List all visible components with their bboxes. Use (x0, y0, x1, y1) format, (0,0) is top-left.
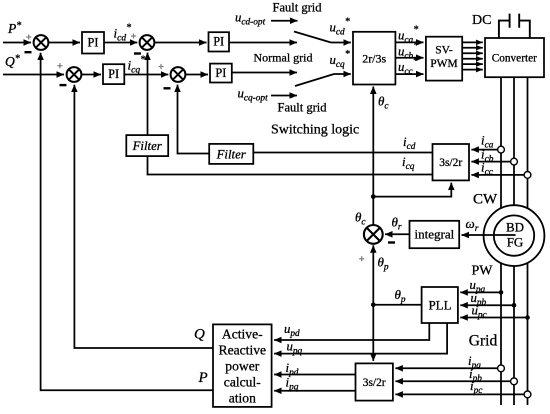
wire i_pb to 3s/2r PW (395, 380, 514, 382)
wire u_cq-opt fault contact row2 (271, 95, 297, 97)
block 3s/2r PW (356, 363, 393, 400)
svg-text:Reactive: Reactive (219, 343, 267, 358)
svg-text:upd: upd (284, 322, 300, 339)
svg-text:2r/3s: 2r/3s (362, 52, 386, 66)
svg-text:PI: PI (213, 35, 224, 49)
svg-text:power: power (225, 359, 259, 374)
svg-text:DC: DC (472, 13, 491, 28)
svg-text:Normal grid: Normal grid (254, 51, 313, 65)
wire i_pd 3s/2r to ARPC (274, 374, 355, 376)
wire PW phase a vertical (500, 257, 502, 405)
svg-text:Active-: Active- (222, 327, 263, 342)
node u_pc tap dot (525, 315, 530, 320)
wire S5 up to theta node (372, 197, 374, 225)
wire PI2 to normal-grid contact row1 (229, 42, 297, 44)
wire u_cc* to SV-PWM (395, 73, 423, 75)
summing junction S2 plus (131, 33, 136, 38)
wire S3 to PI3 (82, 74, 101, 76)
wire S2 to PI2 (155, 42, 207, 44)
switch blade SW1 (294, 32, 331, 43)
wire i_pa to 3s/2r PW (395, 367, 501, 369)
wire u_pq PLL to ARPC (274, 323, 447, 353)
wire PI4 to normal-grid contact row2 (232, 72, 297, 74)
summing junction S3 (67, 67, 82, 82)
wire P* input (3, 42, 31, 44)
node u_pa tap dot (499, 290, 504, 295)
PI controller PI1 (82, 32, 104, 54)
capacitor DC link (499, 14, 530, 38)
svg-text:3s/2r: 3s/2r (439, 157, 462, 169)
svg-text:PI: PI (215, 66, 226, 80)
svg-text:BD: BD (506, 220, 524, 235)
svg-text:Filter: Filter (132, 139, 163, 153)
wire PI1 to S2 with label i_cd* (104, 42, 137, 44)
wire u_ca* to SV-PWM (395, 41, 423, 43)
wire Filter1 to S2 minus (147, 53, 149, 136)
wire Q* input (3, 74, 64, 76)
wire i_cd from 3s/2r to Filter2 (253, 152, 432, 154)
svg-text:θp: θp (378, 255, 389, 273)
wire omega_r machine to integral (462, 234, 516, 236)
wire u_pb to PLL (460, 304, 514, 306)
wire theta_p down to 3s/2r PW (372, 305, 374, 361)
wire PW phase c vertical (527, 257, 529, 405)
filter block Filter2 (209, 144, 253, 164)
svg-text:PLL: PLL (428, 298, 451, 313)
svg-text:Converter: Converter (492, 53, 537, 65)
summing junction S1 plus (26, 34, 31, 39)
svg-text:P*: P* (7, 21, 21, 37)
svg-text:FG: FG (507, 235, 524, 250)
svg-text:PI: PI (88, 35, 99, 49)
svg-text:icd: icd (403, 135, 416, 152)
machine BDFG outer circle (484, 205, 545, 266)
svg-text:ation: ation (229, 391, 256, 406)
summing junction S2 minus (134, 52, 141, 54)
svg-text:integral: integral (415, 226, 455, 241)
wire u_cb* to SV-PWM (395, 57, 423, 59)
svg-text:PW: PW (472, 264, 494, 279)
summing junction S3 minus (60, 84, 67, 86)
block PLL (422, 287, 458, 323)
wire CW phase b vertical (513, 77, 515, 215)
block active-reactive power calculation (213, 324, 272, 407)
wire i_pq 3s/2r to ARPC (274, 390, 355, 392)
summing junction S5 plus (theta_p) (359, 256, 364, 261)
svg-text:3s/2r: 3s/2r (363, 377, 386, 389)
node theta_c junction dot (371, 194, 376, 199)
wire SW1 common to 2r/3s with label u_cd* (331, 42, 351, 44)
machine BDFG inner circle (494, 215, 534, 255)
svg-text:icq*: icq* (128, 55, 146, 76)
svg-text:θc: θc (378, 94, 389, 112)
block integral (410, 221, 460, 248)
svg-text:ωr: ωr (466, 216, 479, 234)
node i_pb sensor (511, 378, 518, 385)
wire theta_c to 3s/2r CW (373, 183, 451, 197)
wire Filter2 to S4 minus (178, 85, 210, 154)
wire i_cc to 3s/2r (471, 174, 527, 176)
block SV-PWM (426, 37, 462, 81)
wire u_cd-opt fault contact row1 (271, 20, 298, 22)
wire u_pa to PLL (460, 291, 501, 293)
wire i_cb to 3s/2r (471, 161, 514, 163)
summing junction S1 (34, 35, 49, 50)
summing junction S2 (140, 35, 155, 50)
wire theta_p up into S5 (372, 245, 374, 304)
svg-text:Q*: Q* (5, 54, 20, 70)
svg-text:Filter: Filter (216, 147, 247, 161)
svg-text:ucd-opt: ucd-opt (235, 11, 266, 28)
svg-text:ucd*: ucd* (330, 17, 350, 38)
wires SV-PWM to Converter (6 gate signals) (462, 42, 483, 69)
wire theta_c up to 2r/3s (372, 87, 374, 197)
svg-text:SV-: SV- (435, 45, 453, 57)
svg-text:θc: θc (355, 210, 366, 228)
summing junction S1 minus (25, 51, 32, 53)
svg-text:calcul-: calcul- (224, 375, 261, 390)
wire Q feedback to S3 (74, 85, 213, 348)
node i_ca sensor (498, 146, 505, 153)
summing junction S4 (171, 67, 186, 82)
summing junction S5 theta (364, 225, 383, 244)
svg-text:icq: icq (402, 155, 415, 172)
switch blade SW2 (295, 74, 334, 86)
node i_pa sensor (498, 365, 505, 372)
svg-text:PI: PI (108, 67, 119, 81)
svg-text:ucq*: ucq* (330, 49, 350, 70)
svg-text:PWM: PWM (430, 58, 457, 70)
node i_cb sensor (511, 158, 518, 165)
svg-text:Q: Q (194, 327, 205, 343)
block Converter (485, 38, 544, 77)
wire CW phase c vertical (527, 77, 529, 215)
block 2r/3s (353, 32, 395, 85)
wire u_pc to PLL (460, 317, 527, 319)
node i_cc sensor (524, 172, 531, 179)
svg-text:icd*: icd* (114, 23, 132, 44)
summing junction S4 plus (158, 64, 163, 69)
wire theta_p PLL output (373, 304, 421, 306)
wire P feedback to S1 (41, 53, 213, 391)
filter block Filter1 (126, 135, 168, 156)
wire PW phase b vertical (513, 257, 515, 405)
svg-text:Switching logic: Switching logic (271, 123, 359, 138)
wire i_pc to 3s/2r PW (395, 393, 527, 395)
node theta_p junction dot (371, 303, 376, 308)
svg-text:CW: CW (473, 192, 498, 208)
node u_pb tap dot (512, 303, 517, 308)
svg-text:θr: θr (392, 215, 402, 233)
wire u_pd PLL to ARPC (274, 323, 429, 340)
node i_pc sensor (524, 391, 531, 398)
wire i_ca to 3s/2r (471, 149, 501, 151)
wire theta_r integral to S5 (385, 233, 409, 235)
svg-text:Grid: Grid (469, 333, 498, 350)
svg-text:Fault grid: Fault grid (273, 1, 323, 15)
svg-text:ucq-opt: ucq-opt (238, 87, 269, 104)
wire i_cq from 3s/2r to Filter1 (148, 156, 433, 174)
wire PI3 to S4 with label i_cq* (124, 74, 168, 76)
svg-text:θp: θp (395, 287, 406, 305)
wire S1 to PI1 (49, 42, 80, 44)
PI controller PI4 (210, 64, 232, 83)
PI controller PI3 (103, 64, 124, 84)
svg-text:Fault grid: Fault grid (278, 101, 328, 115)
PI controller PI2 (209, 32, 230, 51)
summing junction S3 plus (57, 63, 62, 68)
wire SW2 common to 2r/3s with label u_cq* (334, 73, 351, 75)
summing junction S5 minus (theta_r) (388, 241, 395, 243)
wire S4 to PI4 (186, 74, 208, 76)
summing junction S4 minus (164, 87, 171, 89)
wire CW phase a vertical (500, 77, 502, 215)
block 3s/2r CW (433, 144, 470, 180)
svg-text:P: P (198, 370, 208, 386)
